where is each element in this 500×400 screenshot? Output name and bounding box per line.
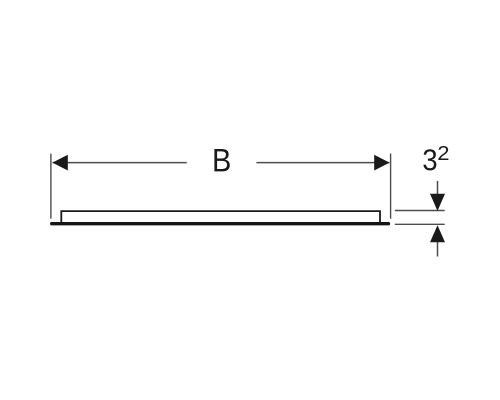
label B	[214, 149, 229, 171]
base bar	[52, 222, 389, 225]
label 3	[423, 149, 436, 170]
thickness extension line bottom	[395, 223, 445, 225]
label footnote 2 superscript	[438, 146, 448, 160]
dimension line B right segment	[256, 162, 389, 164]
arrowhead B left	[52, 155, 67, 171]
thickness arrow down stem	[437, 181, 439, 197]
extension line left	[50, 154, 52, 219]
thickness arrow up stem	[437, 240, 439, 257]
panel outline	[61, 211, 380, 223]
extension line right	[390, 154, 392, 219]
thickness arrow down head	[430, 194, 445, 211]
dimension line B left segment	[53, 162, 187, 164]
thickness extension line top	[395, 210, 445, 212]
arrowhead B right	[374, 155, 389, 171]
thickness arrow up head	[430, 225, 445, 242]
